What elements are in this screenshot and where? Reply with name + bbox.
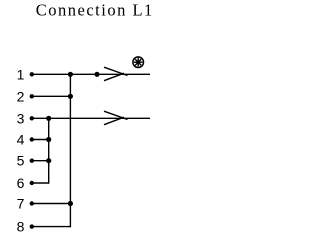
svg-text:1: 1 xyxy=(17,66,25,82)
svg-text:7: 7 xyxy=(17,196,25,212)
wire row 4 (pin 4 to left bus) xyxy=(32,139,49,141)
wire row 5 (pin 5 to left bus) xyxy=(32,160,49,162)
arrow row 3 xyxy=(104,111,128,125)
wire row 1 (pin 1 to output) xyxy=(32,73,150,75)
right vertical bus wire (rows 1-8) xyxy=(69,74,71,227)
junction dot row 5 / left bus xyxy=(46,158,51,163)
junction dot row 4 / left bus xyxy=(46,137,51,142)
pin dot 5 xyxy=(30,159,34,163)
pin dot 4 xyxy=(30,137,34,141)
junction dot row 7 / right bus xyxy=(68,201,73,206)
svg-text:5: 5 xyxy=(17,153,25,169)
pin dot 3 xyxy=(30,116,34,120)
lamp symbol (circle with 8-spoke asterisk) above row 1 output xyxy=(133,57,144,68)
pin dot 2 xyxy=(30,94,34,98)
arrow row 1 xyxy=(104,67,128,81)
left vertical bus wire (rows 3-6) xyxy=(48,118,50,183)
pin dot 6 xyxy=(30,181,34,185)
svg-text:2: 2 xyxy=(17,88,25,104)
wire row 7 (pin 7 to right bus) xyxy=(32,203,71,205)
svg-text:Connection L1: Connection L1 xyxy=(36,0,154,19)
wire row 8 (pin 8 to right bus corner) xyxy=(32,226,71,228)
wire row 6 (pin 6 to left bus corner) xyxy=(32,182,49,184)
pin dot 8 xyxy=(30,224,34,228)
svg-text:6: 6 xyxy=(17,175,25,191)
junction dot row 3 / left bus xyxy=(46,116,51,121)
svg-text:3: 3 xyxy=(17,110,25,126)
wire row 2 (pin 2 to right bus) xyxy=(32,95,71,97)
pin dot 1 xyxy=(30,72,34,76)
wire row 3 (pin 3 to output, crosses right bus) xyxy=(32,117,150,119)
junction dot row 1 mid node xyxy=(94,72,99,77)
pin dot 7 xyxy=(30,201,34,205)
junction dot row 2 / right bus xyxy=(68,94,73,99)
svg-text:4: 4 xyxy=(17,132,25,148)
junction dot row 1 / right bus xyxy=(68,72,73,77)
svg-text:8: 8 xyxy=(17,219,25,235)
